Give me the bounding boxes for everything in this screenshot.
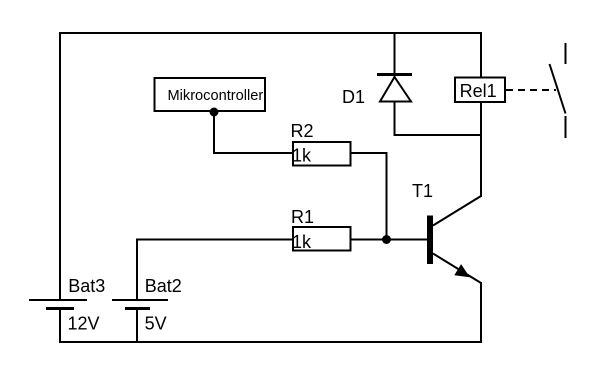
svg-text:T1: T1 <box>412 181 433 201</box>
svg-text:5V: 5V <box>145 313 167 333</box>
svg-text:R1: R1 <box>291 207 314 227</box>
svg-text:12V: 12V <box>68 313 100 333</box>
svg-text:1k: 1k <box>292 146 312 166</box>
svg-text:Bat2: Bat2 <box>145 276 182 296</box>
svg-text:D1: D1 <box>342 87 365 107</box>
svg-text:1k: 1k <box>292 232 312 252</box>
svg-text:Mikrocontroller: Mikrocontroller <box>168 88 264 104</box>
svg-text:R2: R2 <box>291 121 314 141</box>
svg-text:Bat3: Bat3 <box>68 276 105 296</box>
svg-text:Rel1: Rel1 <box>460 81 497 101</box>
